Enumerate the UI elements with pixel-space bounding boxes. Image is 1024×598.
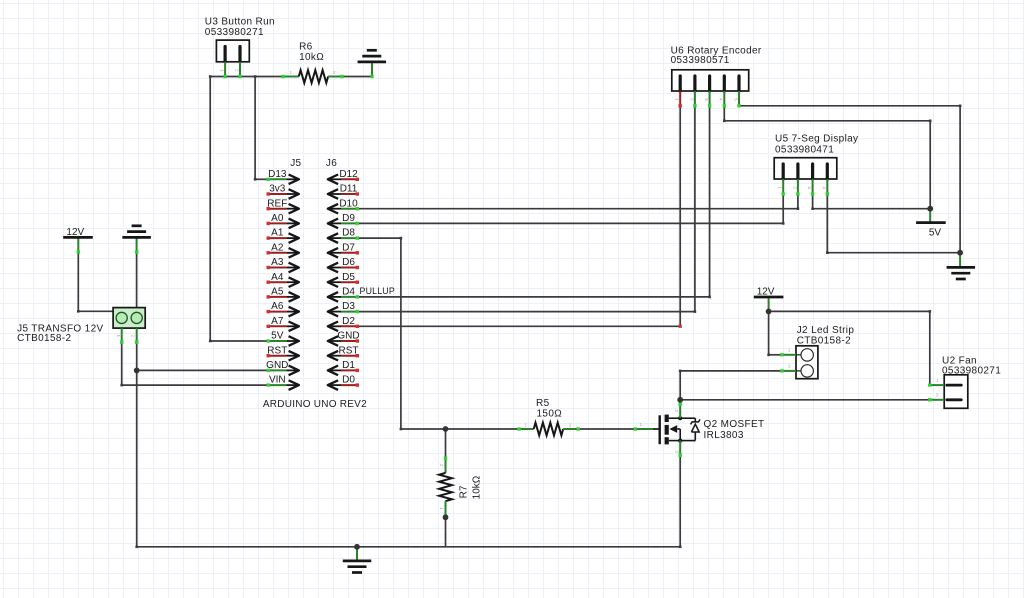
svg-text:1: 1 — [116, 335, 121, 338]
svg-text:A5: A5 — [271, 287, 284, 298]
svg-text:D12: D12 — [339, 169, 358, 180]
svg-text:A1: A1 — [271, 228, 284, 239]
svg-text:10kΩ: 10kΩ — [472, 475, 483, 499]
svg-text:2: 2 — [936, 393, 939, 398]
svg-text:2: 2 — [333, 70, 336, 75]
svg-text:CTB0158-2: CTB0158-2 — [797, 336, 851, 347]
svg-text:1: 1 — [675, 98, 680, 101]
svg-text:A4: A4 — [271, 272, 284, 283]
svg-text:150Ω: 150Ω — [537, 408, 563, 419]
svg-text:CTB0158-2: CTB0158-2 — [17, 333, 71, 344]
svg-text:U5 7-Seg Display: U5 7-Seg Display — [775, 134, 858, 145]
svg-text:D3: D3 — [342, 301, 355, 312]
svg-text:A7: A7 — [271, 316, 284, 327]
svg-text:10kΩ: 10kΩ — [299, 52, 324, 63]
svg-text:5V: 5V — [929, 228, 942, 239]
svg-text:2: 2 — [439, 464, 444, 467]
svg-text:5: 5 — [733, 98, 738, 101]
svg-text:2: 2 — [689, 98, 694, 101]
svg-text:1: 1 — [525, 423, 528, 428]
svg-text:D5: D5 — [342, 272, 355, 283]
svg-text:4: 4 — [822, 186, 827, 189]
svg-text:3: 3 — [704, 98, 709, 101]
svg-text:1: 1 — [640, 422, 643, 427]
svg-text:IRL3803: IRL3803 — [704, 430, 744, 441]
svg-text:R5: R5 — [536, 398, 550, 409]
svg-text:A0: A0 — [271, 213, 284, 224]
svg-text:0533980471: 0533980471 — [775, 145, 834, 156]
svg-text:12V: 12V — [66, 227, 84, 238]
svg-text:1: 1 — [439, 507, 444, 510]
svg-text:1: 1 — [290, 70, 293, 75]
svg-text:2: 2 — [788, 364, 791, 369]
svg-text:R6: R6 — [299, 42, 313, 53]
svg-text:VIN: VIN — [269, 375, 286, 386]
svg-text:D8: D8 — [342, 228, 355, 239]
svg-text:A3: A3 — [271, 257, 284, 268]
svg-text:0533980271: 0533980271 — [942, 366, 1001, 377]
svg-text:D7: D7 — [342, 242, 355, 253]
svg-text:RST: RST — [339, 345, 359, 356]
svg-text:3: 3 — [807, 186, 812, 189]
svg-text:D2: D2 — [342, 316, 355, 327]
svg-text:Q2 MOSFET: Q2 MOSFET — [704, 419, 765, 430]
svg-text:PULLUP: PULLUP — [360, 286, 395, 296]
svg-text:GND: GND — [337, 331, 359, 342]
svg-text:1: 1 — [778, 186, 783, 189]
svg-text:D13: D13 — [268, 169, 287, 180]
svg-text:0533980571: 0533980571 — [671, 55, 730, 66]
svg-text:0533980271: 0533980271 — [205, 27, 264, 38]
svg-text:A6: A6 — [271, 301, 284, 312]
svg-text:J5: J5 — [290, 158, 301, 169]
svg-text:D6: D6 — [342, 257, 355, 268]
svg-text:RST: RST — [267, 345, 287, 356]
svg-text:D1: D1 — [342, 360, 355, 371]
svg-text:J6: J6 — [326, 158, 337, 169]
svg-text:A2: A2 — [271, 242, 284, 253]
svg-text:D4: D4 — [342, 287, 355, 298]
svg-text:3v3: 3v3 — [269, 184, 286, 195]
svg-text:D10: D10 — [339, 198, 358, 209]
svg-text:D0: D0 — [342, 375, 355, 386]
svg-text:U3 Button Run: U3 Button Run — [205, 17, 275, 28]
svg-text:ARDUINO UNO REV2: ARDUINO UNO REV2 — [263, 399, 367, 410]
svg-text:12V: 12V — [757, 286, 775, 297]
svg-text:D9: D9 — [342, 213, 355, 224]
svg-text:1: 1 — [788, 348, 791, 353]
svg-text:2: 2 — [674, 409, 679, 412]
svg-text:R7: R7 — [459, 485, 470, 498]
svg-text:REF: REF — [267, 198, 287, 209]
svg-text:4: 4 — [719, 98, 724, 101]
svg-text:1: 1 — [220, 69, 225, 72]
svg-text:2: 2 — [569, 423, 572, 428]
svg-text:GND: GND — [266, 360, 288, 371]
svg-text:D11: D11 — [340, 184, 358, 195]
svg-text:3: 3 — [675, 450, 680, 453]
svg-text:2: 2 — [131, 335, 136, 338]
svg-text:2: 2 — [235, 69, 240, 72]
svg-text:5V: 5V — [271, 331, 284, 342]
svg-text:1: 1 — [936, 378, 939, 383]
svg-text:2: 2 — [792, 186, 797, 189]
